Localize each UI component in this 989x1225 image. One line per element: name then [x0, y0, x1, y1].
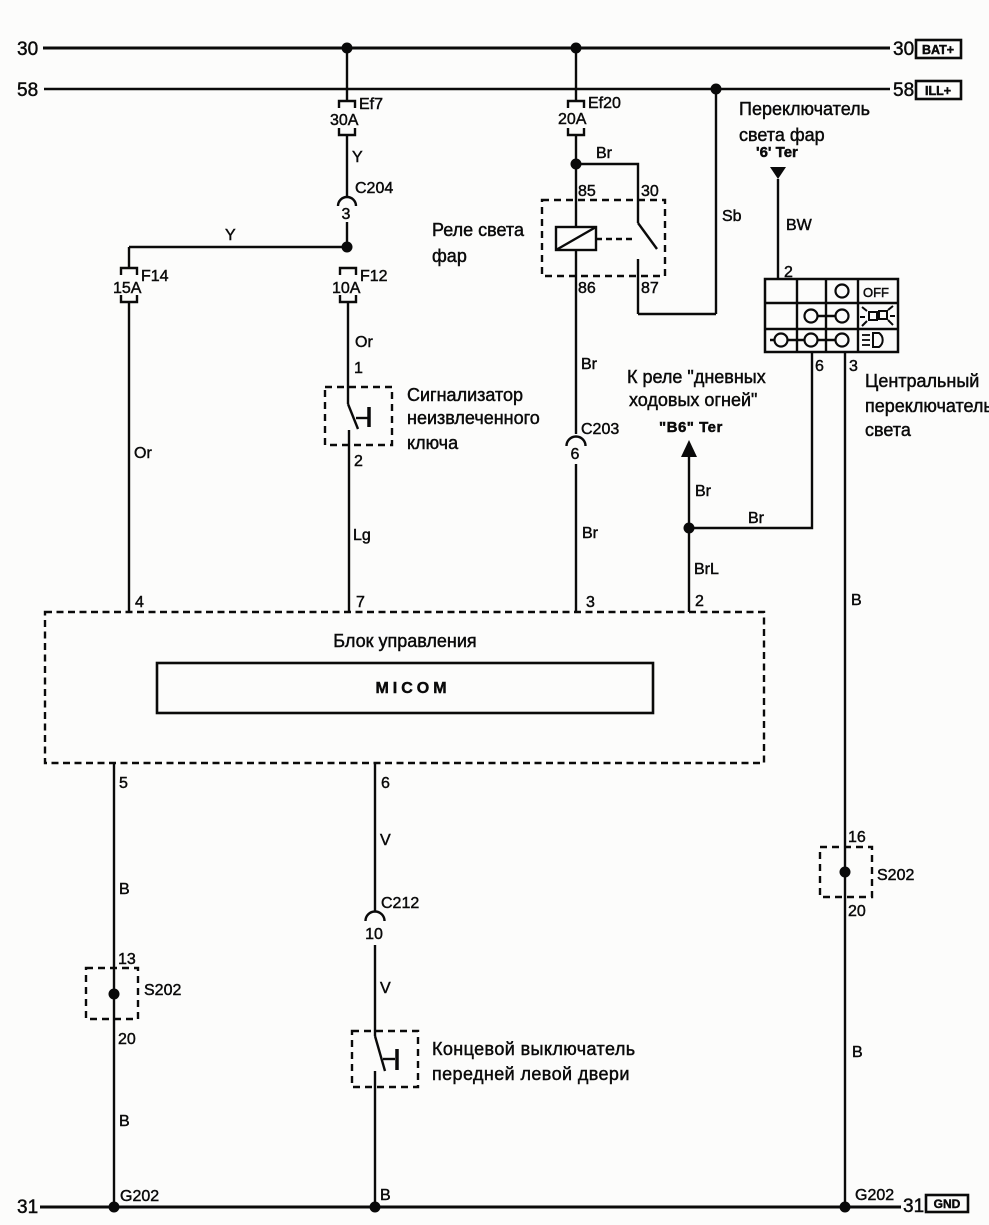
wire Y below Ef7: [347, 135, 363, 197]
svg-text:BrL: BrL: [694, 561, 719, 578]
svg-text:V: V: [380, 832, 391, 849]
svg-text:3: 3: [342, 206, 351, 223]
svg-text:B: B: [119, 881, 130, 898]
svg-text:30: 30: [893, 39, 914, 60]
svg-text:20A: 20A: [558, 111, 587, 128]
svg-text:6: 6: [381, 775, 390, 792]
wire from bus 30 to fuse Ef7: [346, 48, 348, 101]
svg-text:Br: Br: [695, 483, 712, 500]
svg-text:Br: Br: [582, 525, 599, 542]
svg-text:B: B: [852, 1044, 863, 1061]
svg-text:OFF: OFF: [863, 285, 889, 300]
svg-text:B: B: [119, 1113, 130, 1130]
fuse F14 15A: [113, 268, 169, 302]
svg-text:31: 31: [903, 1196, 924, 1217]
svg-text:К реле "дневных: К реле "дневных: [627, 367, 766, 387]
svg-text:F14: F14: [141, 268, 169, 285]
fuse Ef7 30A: [330, 96, 383, 135]
svg-text:20: 20: [118, 1031, 136, 1048]
arrow to DRL relay (К реле "дневных ходовых огней" "В6" Ter): [627, 367, 766, 528]
svg-text:31: 31: [17, 1197, 38, 1218]
svg-text:ходовых огней": ходовых огней": [629, 390, 757, 410]
svg-text:87: 87: [641, 280, 659, 297]
wire B from light switch pin 3: [845, 352, 866, 847]
MICOM block: [157, 663, 653, 713]
node: junction on bus 30 at Ef7: [342, 43, 353, 54]
svg-text:передней левой двери: передней левой двери: [432, 1064, 630, 1084]
svg-text:Or: Or: [355, 334, 373, 351]
svg-text:5: 5: [119, 775, 128, 792]
svg-text:Ef20: Ef20: [588, 95, 621, 112]
svg-text:'6' Ter: '6' Ter: [756, 144, 798, 161]
svg-text:Ef7: Ef7: [359, 96, 383, 113]
svg-text:G202: G202: [120, 1188, 159, 1205]
icon: headlight (row 3): [862, 333, 883, 347]
svg-text:Lg: Lg: [353, 527, 371, 544]
wire Lg from key switch pin 2 to control unit pin 7: [349, 445, 371, 612]
fuse F12 10A: [332, 268, 388, 302]
svg-text:S202: S202: [877, 867, 914, 884]
node: junction BrL: [684, 523, 695, 534]
svg-text:света: света: [865, 420, 912, 440]
node: junction below C204: [342, 242, 353, 253]
connector S202 right (pins 16/20): [820, 847, 914, 920]
svg-text:V: V: [380, 980, 391, 997]
wire to relay pin 30: [576, 164, 638, 223]
svg-text:F12: F12: [360, 268, 388, 285]
wire Sb from bus 58 to relay pin 87: [638, 84, 742, 315]
bus 30 (BAT+): [17, 39, 961, 60]
connector C212 pin 10: [365, 895, 419, 943]
svg-text:Блок управления: Блок управления: [333, 631, 476, 651]
wire BW to light switch pin 2: [778, 179, 813, 281]
arrow from headlight switch '6' Ter (Переключатель света фар): [739, 99, 870, 179]
svg-text:58: 58: [893, 80, 914, 101]
svg-text:G202: G202: [855, 1187, 894, 1204]
wire B from control unit pin 5: [114, 763, 136, 968]
svg-text:85: 85: [578, 183, 596, 200]
label: light switch pins 6 and 3: [815, 358, 989, 440]
svg-text:30: 30: [641, 183, 659, 200]
svg-text:C204: C204: [355, 180, 393, 197]
svg-text:2: 2: [354, 453, 363, 470]
svg-text:неизвлеченного: неизвлеченного: [407, 408, 540, 428]
wire V from control unit pin 6: [375, 763, 391, 911]
svg-text:4: 4: [135, 594, 144, 611]
svg-text:Br: Br: [748, 510, 765, 527]
light switch (Центральный переключатель света): [765, 279, 898, 352]
door switch (Концевой выключатель передней левой двери): [352, 1031, 636, 1087]
svg-text:3: 3: [849, 358, 858, 375]
wire BrL to control unit pin 2: [689, 528, 719, 612]
svg-text:86: 86: [578, 280, 596, 297]
control unit (Блок управления): [45, 612, 764, 763]
svg-text:BAT+: BAT+: [922, 43, 954, 57]
svg-text:Br: Br: [581, 356, 598, 373]
svg-text:15A: 15A: [113, 280, 142, 297]
svg-text:B: B: [851, 592, 862, 609]
wire Y horizontal to F14: [129, 227, 347, 268]
svg-text:"В6" Ter: "В6" Ter: [659, 419, 723, 436]
wire Br from relay pin 86: [576, 250, 598, 434]
svg-text:10A: 10A: [332, 280, 361, 297]
svg-text:7: 7: [356, 594, 365, 611]
wire B from door switch to ground: [370, 1071, 391, 1213]
svg-text:света фар: света фар: [739, 125, 825, 145]
svg-text:13: 13: [118, 951, 136, 968]
svg-text:MICOM: MICOM: [375, 680, 450, 697]
wire Br below Ef20: [576, 135, 613, 164]
fuse Ef20 20A: [558, 95, 621, 135]
svg-text:30: 30: [17, 39, 38, 60]
svg-text:20: 20: [848, 903, 866, 920]
svg-text:1: 1: [354, 360, 363, 377]
svg-text:переключатель: переключатель: [865, 396, 989, 416]
svg-text:Реле света: Реле света: [432, 220, 525, 240]
svg-text:B: B: [380, 1187, 391, 1204]
wire B from S202 right to ground G202: [840, 897, 895, 1213]
wire Br from C203 to control unit pin 3: [576, 464, 599, 612]
svg-text:30A: 30A: [330, 112, 359, 129]
connector C204 pin 3: [338, 180, 393, 247]
svg-text:Сигнализатор: Сигнализатор: [407, 385, 523, 405]
svg-text:S202: S202: [144, 982, 181, 999]
node: junction on bus 30 at Ef20: [571, 43, 582, 54]
connector S202 left (pins 13/20): [86, 968, 181, 1048]
svg-text:Br: Br: [596, 145, 613, 162]
svg-text:16: 16: [848, 829, 866, 846]
svg-text:2: 2: [695, 593, 704, 610]
wire from bus 30 to fuse Ef20: [575, 48, 577, 101]
wire B from S202 left to ground G202: [109, 1019, 160, 1213]
svg-text:Центральный: Центральный: [865, 371, 979, 391]
svg-text:6: 6: [571, 446, 580, 463]
ground bus 31 (GND): [17, 1195, 968, 1218]
wire Or from F12 to key-in switch pin 1: [348, 302, 373, 389]
wire Or from F14 to control unit pin 4: [129, 302, 152, 612]
wire Br from light switch pin 6 to junction: [689, 352, 812, 528]
svg-text:фар: фар: [432, 246, 467, 266]
svg-text:3: 3: [586, 594, 595, 611]
connector C203 pin 6: [567, 421, 620, 463]
svg-text:ILL+: ILL+: [925, 84, 951, 98]
svg-text:10: 10: [365, 926, 383, 943]
svg-text:BW: BW: [786, 217, 813, 234]
svg-text:Y: Y: [352, 149, 363, 166]
bus 58 (ILL+): [17, 80, 961, 101]
svg-text:ключа: ключа: [407, 433, 459, 453]
node: junction at relay branch: [571, 159, 582, 170]
wire V from C212 to door switch: [375, 945, 391, 1036]
svg-text:C203: C203: [581, 421, 619, 438]
icon: position lamps (row 2): [860, 306, 895, 326]
svg-text:Or: Or: [134, 445, 152, 462]
svg-text:Sb: Sb: [722, 208, 742, 225]
key-in warning switch (Сигнализатор неизвлеченного ключа): [325, 385, 540, 453]
svg-text:6: 6: [815, 358, 824, 375]
svg-text:GND: GND: [934, 1197, 961, 1211]
svg-text:Концевой выключатель: Концевой выключатель: [432, 1039, 636, 1059]
svg-text:Y: Y: [225, 227, 236, 244]
relay K (Реле света фар): [432, 164, 665, 314]
svg-text:58: 58: [17, 80, 38, 101]
svg-text:C212: C212: [381, 895, 419, 912]
svg-text:Переключатель: Переключатель: [739, 99, 870, 119]
